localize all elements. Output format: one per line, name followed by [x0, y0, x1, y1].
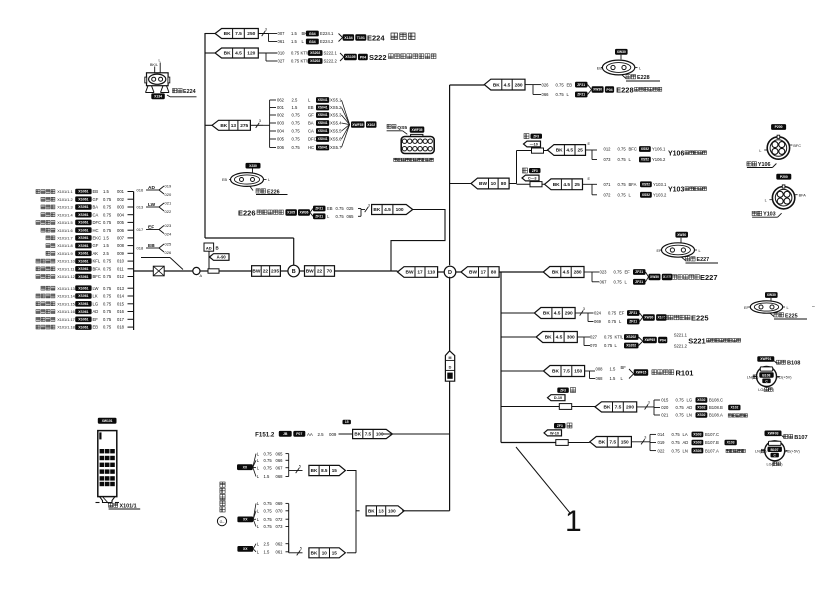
svg-text:D: D [448, 270, 452, 276]
svg-text:0.75: 0.75 [614, 280, 623, 285]
svg-text:XWF35: XWF35 [352, 123, 363, 127]
svg-text:B107.C: B107.C [705, 432, 719, 437]
svg-text:7.5: 7.5 [609, 440, 616, 446]
svg-text:XS202: XS202 [310, 51, 320, 55]
svg-text:0.75: 0.75 [336, 206, 345, 211]
svg-text:ZF3: ZF3 [557, 424, 563, 428]
svg-text:021: 021 [661, 413, 669, 418]
svg-text:ZF21: ZF21 [635, 280, 643, 284]
svg-text:X134: X134 [344, 36, 352, 40]
svg-text:120: 120 [247, 51, 255, 57]
svg-text:009: 009 [117, 251, 125, 256]
svg-text:7.5: 7.5 [235, 31, 242, 37]
svg-text:BK: BK [552, 369, 559, 375]
svg-text:023: 023 [600, 270, 608, 275]
svg-text:EB: EB [93, 189, 99, 194]
svg-text:X102: X102 [367, 123, 375, 127]
svg-text:200: 200 [626, 405, 634, 411]
svg-text:009: 009 [329, 432, 337, 437]
svg-text:1.5: 1.5 [610, 367, 616, 372]
svg-text:XS061: XS061 [78, 302, 88, 306]
svg-text:AD: AD [148, 185, 155, 191]
svg-text:BK: BK [220, 123, 227, 129]
svg-text:LK: LK [93, 294, 98, 299]
svg-text:ZF21: ZF21 [577, 83, 585, 87]
svg-text:A-90: A-90 [217, 255, 227, 260]
svg-text:GF: GF [93, 197, 99, 202]
svg-text:M: M [449, 356, 452, 360]
svg-text:1: 1 [565, 505, 582, 538]
svg-text:ZF21: ZF21 [635, 270, 643, 274]
svg-text:0.75: 0.75 [618, 147, 627, 152]
svg-text:LW: LW [148, 202, 156, 208]
svg-text:1.5: 1.5 [103, 243, 109, 248]
svg-text:XS52: XS52 [642, 183, 650, 187]
svg-text:XS061: XS061 [78, 228, 88, 232]
svg-text:XWF15: XWF15 [636, 371, 647, 375]
svg-text:001: 001 [117, 189, 125, 194]
svg-text:XS061: XS061 [78, 286, 88, 290]
svg-text:EF: EF [619, 311, 625, 316]
svg-text:BK: BK [354, 432, 361, 437]
svg-text:X101/1.2: X101/1.2 [57, 198, 72, 202]
svg-text:S222.1: S222.1 [324, 51, 338, 56]
svg-text:XX: XX [243, 465, 248, 469]
svg-text:BK: BK [552, 270, 559, 276]
svg-text:BK: BK [311, 468, 318, 473]
svg-text:E227: E227 [697, 257, 710, 263]
svg-text:XS061: XS061 [78, 221, 88, 225]
svg-text:068: 068 [596, 376, 604, 381]
svg-text:065: 065 [347, 214, 355, 219]
svg-text:0.75: 0.75 [103, 220, 112, 225]
svg-text:0.75: 0.75 [264, 517, 273, 522]
svg-text:0.75: 0.75 [291, 59, 300, 64]
svg-text:25: 25 [575, 182, 581, 188]
svg-text:Y106: Y106 [668, 150, 684, 157]
svg-text:17: 17 [481, 270, 487, 276]
svg-text:XW36: XW36 [300, 211, 309, 215]
svg-text:0.75: 0.75 [604, 343, 613, 348]
svg-text:065: 065 [276, 451, 284, 456]
svg-text:BK: BK [311, 551, 318, 556]
svg-text:XS061: XS061 [78, 294, 88, 298]
svg-text:X101/1.17: X101/1.17 [57, 318, 75, 322]
svg-text:070: 070 [590, 343, 598, 348]
svg-text:BK: BK [224, 51, 231, 57]
svg-text:HC: HC [308, 145, 314, 150]
svg-text:0.75: 0.75 [103, 266, 112, 271]
svg-text:110: 110 [427, 270, 435, 276]
svg-text:L: L [699, 249, 701, 253]
svg-text:G34: G34 [309, 32, 316, 36]
svg-text:EF: EF [625, 270, 631, 275]
svg-text:XWF01: XWF01 [760, 357, 771, 361]
svg-text:4.5: 4.5 [566, 148, 573, 154]
svg-text:XW30: XW30 [677, 233, 686, 237]
svg-text:Y103: Y103 [668, 187, 684, 194]
svg-text:023: 023 [165, 223, 172, 228]
svg-text:BK: BK [604, 405, 611, 411]
svg-text:003: 003 [277, 121, 285, 126]
svg-text:L: L [639, 66, 641, 70]
svg-text:2.5: 2.5 [264, 541, 270, 546]
svg-text:XWF65: XWF65 [644, 338, 655, 342]
svg-text:G–: G– [220, 520, 225, 524]
svg-text:0.75: 0.75 [103, 294, 112, 299]
svg-text:025: 025 [347, 206, 355, 211]
svg-text:XS202: XS202 [626, 344, 636, 348]
svg-text:280: 280 [574, 270, 582, 276]
svg-text:XS5.7: XS5.7 [330, 145, 342, 150]
svg-text:280: 280 [515, 82, 523, 88]
svg-text:0.75: 0.75 [336, 214, 345, 219]
svg-text:DFC: DFC [308, 137, 317, 142]
svg-text:AD: AD [93, 309, 99, 314]
svg-text:XS105: XS105 [345, 55, 355, 59]
svg-text:ZF3: ZF3 [560, 388, 566, 392]
svg-text:BK: BK [545, 335, 552, 341]
svg-text:EKC: EKC [93, 236, 102, 241]
svg-text:0.75: 0.75 [264, 458, 273, 463]
svg-text:1.5: 1.5 [610, 376, 616, 381]
svg-text:X103: X103 [727, 441, 735, 445]
svg-text:E226: E226 [238, 208, 256, 217]
svg-text:011: 011 [117, 266, 124, 271]
svg-text:061: 061 [278, 39, 286, 44]
svg-text:0.75: 0.75 [264, 451, 273, 456]
svg-text:BK: BK [373, 207, 380, 213]
svg-text:021: 021 [165, 201, 172, 206]
svg-text:XS202: XS202 [626, 335, 636, 339]
svg-text:B107.A: B107.A [705, 448, 719, 453]
svg-text:80: 80 [501, 181, 507, 187]
svg-text:0.75: 0.75 [103, 325, 112, 330]
svg-text:B107: B107 [794, 435, 807, 441]
svg-text:B108: B108 [787, 361, 800, 367]
svg-text:P200: P200 [780, 175, 788, 179]
svg-text:E224: E224 [183, 89, 196, 95]
svg-text:017: 017 [117, 317, 125, 322]
svg-text:069: 069 [276, 501, 284, 506]
svg-text:LN: LN [683, 448, 688, 453]
svg-text:X101/1.3: X101/1.3 [57, 206, 72, 210]
svg-text:ZF21: ZF21 [629, 311, 637, 315]
svg-text:B107.B: B107.B [705, 440, 719, 445]
svg-text:XWF03: XWF03 [768, 432, 779, 436]
svg-text:004: 004 [117, 212, 125, 217]
svg-text:70: 70 [327, 269, 333, 275]
svg-text:X101/1.15: X101/1.15 [57, 302, 75, 306]
svg-text:1.5: 1.5 [103, 236, 109, 241]
svg-text:100: 100 [396, 207, 404, 213]
svg-text:XS061: XS061 [78, 275, 88, 279]
svg-text:D: D [449, 365, 452, 369]
svg-text:Y103.1: Y103.1 [653, 182, 667, 187]
svg-text:4.5: 4.5 [556, 335, 563, 341]
svg-text:LG(: LG( [767, 462, 774, 466]
svg-text:X134: X134 [154, 95, 162, 99]
svg-text:0.75: 0.75 [103, 274, 112, 279]
svg-text:XS041: XS041 [318, 146, 328, 150]
svg-text:L: L [787, 306, 789, 310]
svg-text:F151.2: F151.2 [255, 432, 275, 439]
svg-text:072: 072 [276, 517, 284, 522]
svg-text:DFC: DFC [93, 220, 102, 225]
svg-text:014: 014 [658, 432, 666, 437]
svg-text:W-10: W-10 [550, 431, 559, 435]
svg-text:EB: EB [93, 325, 99, 330]
svg-text:XS52: XS52 [641, 147, 649, 151]
svg-text:KT/L: KT/L [615, 335, 625, 340]
svg-text:XS061: XS061 [78, 318, 88, 322]
svg-text:EF: EF [657, 249, 663, 253]
svg-text:0.75: 0.75 [103, 259, 112, 264]
svg-text:22: 22 [263, 269, 269, 275]
svg-text:P200: P200 [775, 125, 783, 129]
svg-text:CA: CA [308, 129, 314, 134]
svg-text:1.5: 1.5 [291, 31, 297, 36]
svg-text:067: 067 [600, 280, 608, 285]
svg-text:2.5: 2.5 [318, 432, 325, 437]
svg-text:018: 018 [137, 246, 144, 251]
svg-text:020: 020 [165, 192, 172, 197]
svg-text:0.75: 0.75 [103, 197, 112, 202]
svg-text:S222: S222 [369, 53, 387, 62]
svg-text:B108.B: B108.B [709, 405, 723, 410]
svg-text:4.5: 4.5 [563, 182, 570, 188]
svg-text:BA: BA [93, 205, 99, 210]
svg-text:F07: F07 [296, 432, 302, 436]
svg-text:X101/1.18: X101/1.18 [57, 326, 75, 330]
svg-text:066: 066 [542, 92, 550, 97]
svg-text:4.5: 4.5 [504, 82, 511, 88]
svg-text:008: 008 [117, 243, 125, 248]
svg-text:001: 001 [277, 105, 285, 110]
svg-text:P04: P04 [606, 88, 612, 92]
svg-text:016: 016 [117, 309, 125, 314]
svg-text:Y103.2: Y103.2 [653, 193, 667, 198]
svg-text:XX: XX [243, 547, 248, 551]
svg-text:006: 006 [117, 228, 125, 233]
svg-text:AD: AD [683, 440, 689, 445]
svg-text:AA: AA [307, 432, 313, 437]
svg-text:027: 027 [590, 335, 598, 340]
svg-text:BK: BK [553, 182, 560, 188]
svg-text:0.75: 0.75 [614, 270, 623, 275]
svg-text:027: 027 [278, 59, 286, 64]
svg-text:0.75: 0.75 [676, 405, 685, 410]
svg-text:071: 071 [604, 182, 612, 187]
svg-text:BK: BK [543, 311, 550, 317]
svg-text:150: 150 [621, 440, 629, 446]
svg-text:BW: BW [469, 270, 477, 276]
svg-text:1.5: 1.5 [292, 105, 298, 110]
svg-text:ZF21: ZF21 [315, 207, 323, 211]
svg-text:BK: BK [598, 440, 605, 446]
svg-text:10: 10 [491, 181, 497, 187]
svg-text:X101/1.4: X101/1.4 [57, 213, 73, 217]
svg-text:0.75: 0.75 [556, 92, 565, 97]
svg-text:AD: AD [206, 245, 212, 250]
svg-text:X101/1.13: X101/1.13 [57, 287, 75, 291]
svg-text:0.75: 0.75 [291, 51, 300, 56]
svg-text:061: 061 [276, 550, 284, 555]
svg-text:015: 015 [661, 398, 669, 403]
svg-text:XS5.4: XS5.4 [330, 121, 342, 126]
svg-text:022: 022 [658, 448, 666, 453]
svg-text:EB: EB [222, 178, 228, 182]
svg-text:0.75: 0.75 [292, 121, 301, 126]
svg-text:XS061: XS061 [78, 198, 88, 202]
svg-text:0.75: 0.75 [672, 432, 681, 437]
svg-text:XW30: XW30 [617, 50, 626, 54]
svg-text:007: 007 [278, 31, 286, 36]
svg-text:1.5: 1.5 [264, 474, 270, 479]
svg-text:BK: BK [368, 509, 375, 514]
svg-text:010: 010 [278, 51, 286, 56]
svg-text:X101/1.11: X101/1.11 [57, 267, 74, 271]
svg-text:B: B [216, 246, 219, 251]
svg-text:—10: —10 [530, 142, 538, 146]
svg-text:XS041: XS041 [318, 113, 328, 117]
svg-text:EB: EB [327, 206, 333, 211]
svg-text:XS5.6: XS5.6 [330, 137, 342, 142]
svg-text:13: 13 [379, 509, 385, 514]
svg-text:0.75: 0.75 [103, 317, 112, 322]
svg-text:S222.2: S222.2 [324, 59, 338, 64]
svg-text:XS061: XS061 [78, 213, 88, 217]
svg-text:0.75: 0.75 [292, 145, 301, 150]
svg-text:KFL: KFL [93, 259, 101, 264]
svg-text:003: 003 [117, 205, 125, 210]
svg-text:X101/1.10: X101/1.10 [57, 260, 75, 264]
svg-text:072: 072 [604, 193, 612, 198]
svg-text:7.5: 7.5 [615, 405, 622, 411]
svg-text:BW: BW [479, 181, 487, 187]
svg-text:018: 018 [117, 325, 125, 330]
svg-text:LN(: LN( [755, 450, 762, 454]
svg-text:0.75: 0.75 [264, 524, 273, 529]
svg-text:JB: JB [283, 432, 288, 436]
svg-text:T101: T101 [357, 36, 365, 40]
svg-text:150: 150 [574, 369, 582, 375]
svg-text:017: 017 [137, 227, 144, 232]
svg-text:XS041: XS041 [318, 98, 328, 102]
svg-text:XS52: XS52 [642, 193, 650, 197]
svg-text:024: 024 [165, 232, 172, 237]
svg-text:80: 80 [491, 270, 497, 276]
svg-text:002: 002 [277, 113, 285, 118]
svg-text:006: 006 [277, 145, 285, 150]
svg-text:S221.1: S221.1 [674, 333, 688, 338]
svg-text:BK: BK [556, 148, 563, 154]
svg-text:010: 010 [117, 259, 125, 264]
svg-text:X105: X105 [287, 211, 295, 215]
svg-text:BW: BW [252, 269, 260, 275]
svg-text:0.75: 0.75 [264, 509, 273, 514]
svg-text:D-10: D-10 [554, 396, 562, 400]
svg-text:E224.2: E224.2 [320, 39, 334, 44]
svg-text:013: 013 [137, 205, 144, 210]
svg-text:1.5: 1.5 [291, 39, 297, 44]
svg-text:ZF3: ZF3 [532, 169, 538, 173]
svg-text:XW30: XW30 [767, 293, 776, 297]
svg-text:275: 275 [240, 123, 248, 129]
svg-text:G34: G34 [309, 40, 316, 44]
svg-text:EF: EF [93, 317, 99, 322]
svg-text:069: 069 [594, 319, 602, 324]
svg-text:0.75: 0.75 [556, 82, 565, 87]
svg-text:0.75: 0.75 [103, 286, 112, 291]
svg-text:B107: B107 [770, 448, 778, 452]
svg-text:8.5: 8.5 [321, 468, 328, 473]
svg-text:4.5: 4.5 [235, 51, 242, 57]
svg-text:LN: LN [687, 413, 692, 418]
svg-text:XS03: XS03 [693, 441, 701, 445]
svg-text:GF: GF [93, 243, 99, 248]
svg-text:073: 073 [604, 157, 612, 162]
svg-text:4.5: 4.5 [384, 207, 391, 213]
svg-text:XS02: XS02 [697, 406, 705, 410]
svg-text:020: 020 [661, 405, 669, 410]
svg-text:BK/L: BK/L [150, 63, 158, 67]
svg-text:290: 290 [565, 311, 573, 317]
svg-text:062: 062 [276, 541, 284, 546]
svg-text:–: – [812, 304, 815, 310]
svg-text:B108.C: B108.C [709, 398, 723, 403]
svg-text:S221.2: S221.2 [674, 344, 688, 349]
svg-text:015: 015 [117, 301, 125, 306]
svg-text:026: 026 [165, 250, 172, 255]
svg-text:13: 13 [231, 123, 237, 129]
svg-text:ZF21: ZF21 [629, 320, 637, 324]
svg-text:BFA: BFA [629, 182, 637, 187]
svg-text:0.75: 0.75 [604, 335, 613, 340]
svg-text:LG(: LG( [758, 388, 765, 392]
svg-text:005: 005 [117, 220, 125, 225]
svg-text:LG: LG [687, 398, 693, 403]
svg-text:004: 004 [277, 129, 285, 134]
svg-text:BFA: BFA [799, 194, 807, 198]
svg-text:S221: S221 [688, 337, 706, 346]
svg-text:BF: BF [621, 365, 627, 370]
svg-text:LN(: LN( [747, 375, 754, 379]
svg-text:XS061: XS061 [78, 259, 88, 263]
svg-text:XS041: XS041 [318, 137, 328, 141]
svg-text:X230: X230 [249, 164, 257, 168]
svg-text:008: 008 [596, 367, 604, 372]
svg-text:2.5: 2.5 [103, 251, 109, 256]
svg-text:XS5.2: XS5.2 [330, 105, 342, 110]
svg-text:XS061: XS061 [78, 267, 88, 271]
svg-text:XS52: XS52 [641, 158, 649, 162]
svg-text:016: 016 [137, 188, 144, 193]
svg-text:062: 062 [277, 98, 285, 103]
svg-text:C—3: C—3 [528, 176, 537, 180]
svg-text:002: 002 [117, 197, 125, 202]
svg-text:0.75: 0.75 [292, 113, 301, 118]
svg-text:XS02: XS02 [697, 413, 705, 417]
svg-text:AD(+5V): AD(+5V) [777, 375, 792, 379]
svg-text:0.75: 0.75 [103, 228, 112, 233]
svg-text:15: 15 [332, 551, 338, 556]
svg-text:0.75: 0.75 [608, 319, 617, 324]
svg-text:XS03: XS03 [693, 433, 701, 437]
svg-text:BFA: BFA [93, 266, 101, 271]
svg-text:XS041: XS041 [318, 129, 328, 133]
svg-text:068: 068 [276, 474, 284, 479]
